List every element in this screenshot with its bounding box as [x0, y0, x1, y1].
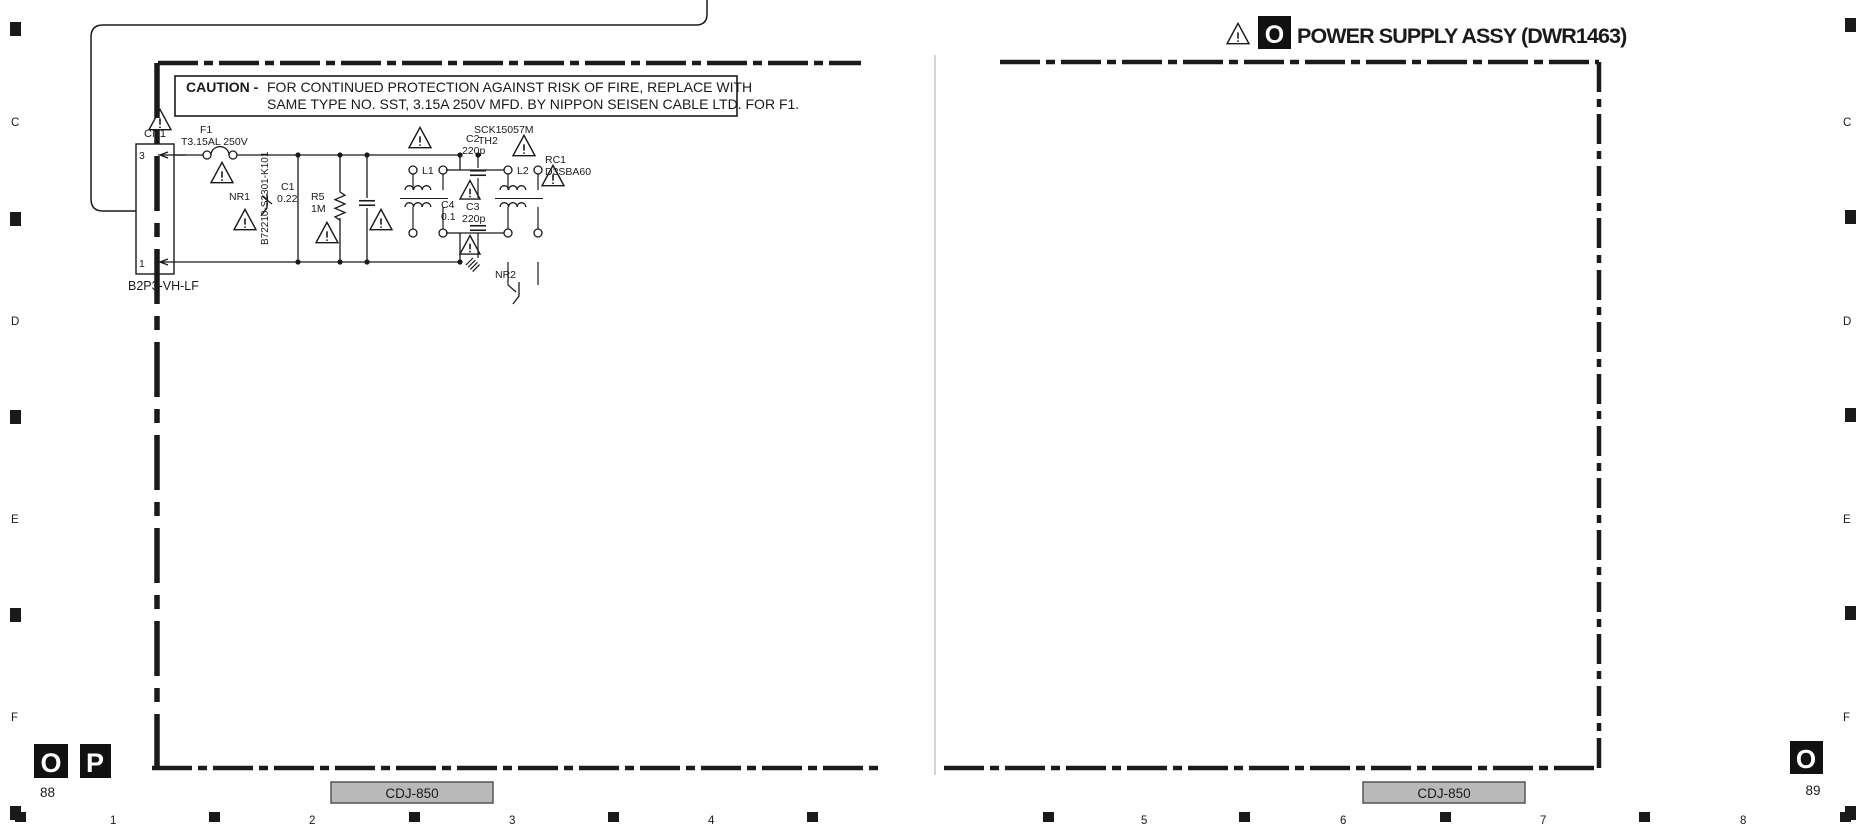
- svg-text:0.22: 0.22: [277, 193, 298, 205]
- svg-text:0.1: 0.1: [441, 211, 456, 223]
- svg-text:1M: 1M: [311, 203, 326, 215]
- svg-text:CN1: CN1: [144, 128, 166, 140]
- svg-text:TH2: TH2: [478, 135, 498, 147]
- svg-text:POWER SUPPLY ASSY (DWR1463): POWER SUPPLY ASSY (DWR1463): [1297, 24, 1627, 48]
- svg-text:1: 1: [110, 815, 116, 827]
- svg-text:F1: F1: [200, 124, 212, 136]
- svg-text:3: 3: [139, 150, 145, 162]
- svg-text:D: D: [1843, 316, 1851, 328]
- svg-text:P: P: [86, 748, 104, 778]
- svg-text:B72210-S2301-K101: B72210-S2301-K101: [260, 151, 271, 245]
- svg-text:F: F: [11, 712, 18, 724]
- svg-text:CAUTION -: CAUTION -: [186, 79, 259, 95]
- svg-text:1: 1: [139, 258, 145, 270]
- svg-text:88: 88: [40, 785, 55, 800]
- svg-text:7: 7: [1540, 815, 1546, 827]
- svg-text:O: O: [1265, 21, 1284, 49]
- svg-text:CDJ-850: CDJ-850: [385, 786, 438, 801]
- svg-text:NR2: NR2: [495, 269, 516, 281]
- svg-text:D: D: [11, 316, 19, 328]
- svg-text:F: F: [1843, 712, 1850, 724]
- svg-text:T3.15AL 250V: T3.15AL 250V: [181, 136, 248, 148]
- svg-text:89: 89: [1805, 783, 1820, 798]
- svg-text:NR1: NR1: [229, 191, 250, 203]
- svg-text:E: E: [1843, 514, 1851, 526]
- svg-text:C: C: [1843, 117, 1851, 129]
- svg-text:B2P3-VH-LF: B2P3-VH-LF: [128, 279, 199, 293]
- svg-text:C4: C4: [441, 199, 455, 211]
- svg-text:C3: C3: [466, 201, 480, 213]
- svg-text:CDJ-850: CDJ-850: [1417, 786, 1470, 801]
- svg-text:4: 4: [708, 815, 715, 827]
- svg-text:D3SBA60: D3SBA60: [545, 166, 591, 178]
- svg-text:L2: L2: [517, 165, 529, 177]
- svg-text:RC1: RC1: [545, 154, 566, 166]
- svg-text:SAME TYPE NO. SST, 3.15A 250V: SAME TYPE NO. SST, 3.15A 250V MFD. BY NI…: [267, 96, 799, 112]
- svg-text:L1: L1: [422, 165, 434, 177]
- svg-text:3: 3: [509, 815, 515, 827]
- svg-text:FOR CONTINUED PROTECTION AGAIN: FOR CONTINUED PROTECTION AGAINST RISK OF…: [267, 79, 752, 95]
- svg-text:C1: C1: [281, 181, 295, 193]
- svg-text:O: O: [1796, 744, 1816, 774]
- svg-text:O: O: [40, 748, 61, 778]
- svg-text:2: 2: [309, 815, 315, 827]
- svg-text:5: 5: [1141, 815, 1147, 827]
- svg-text:8: 8: [1740, 815, 1746, 827]
- svg-text:6: 6: [1340, 815, 1346, 827]
- svg-text:220p: 220p: [462, 213, 486, 225]
- svg-text:C: C: [11, 117, 19, 129]
- svg-text:R5: R5: [311, 191, 325, 203]
- svg-text:E: E: [11, 514, 19, 526]
